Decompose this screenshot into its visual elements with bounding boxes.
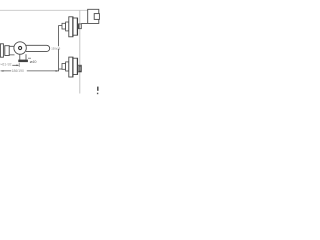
svg-text:ø40: ø40 — [30, 59, 38, 64]
svg-text:≈61-92: ≈61-92 — [0, 62, 11, 66]
svg-text:186/190: 186/190 — [12, 69, 24, 73]
svg-text:150±15: 150±15 — [51, 46, 60, 50]
